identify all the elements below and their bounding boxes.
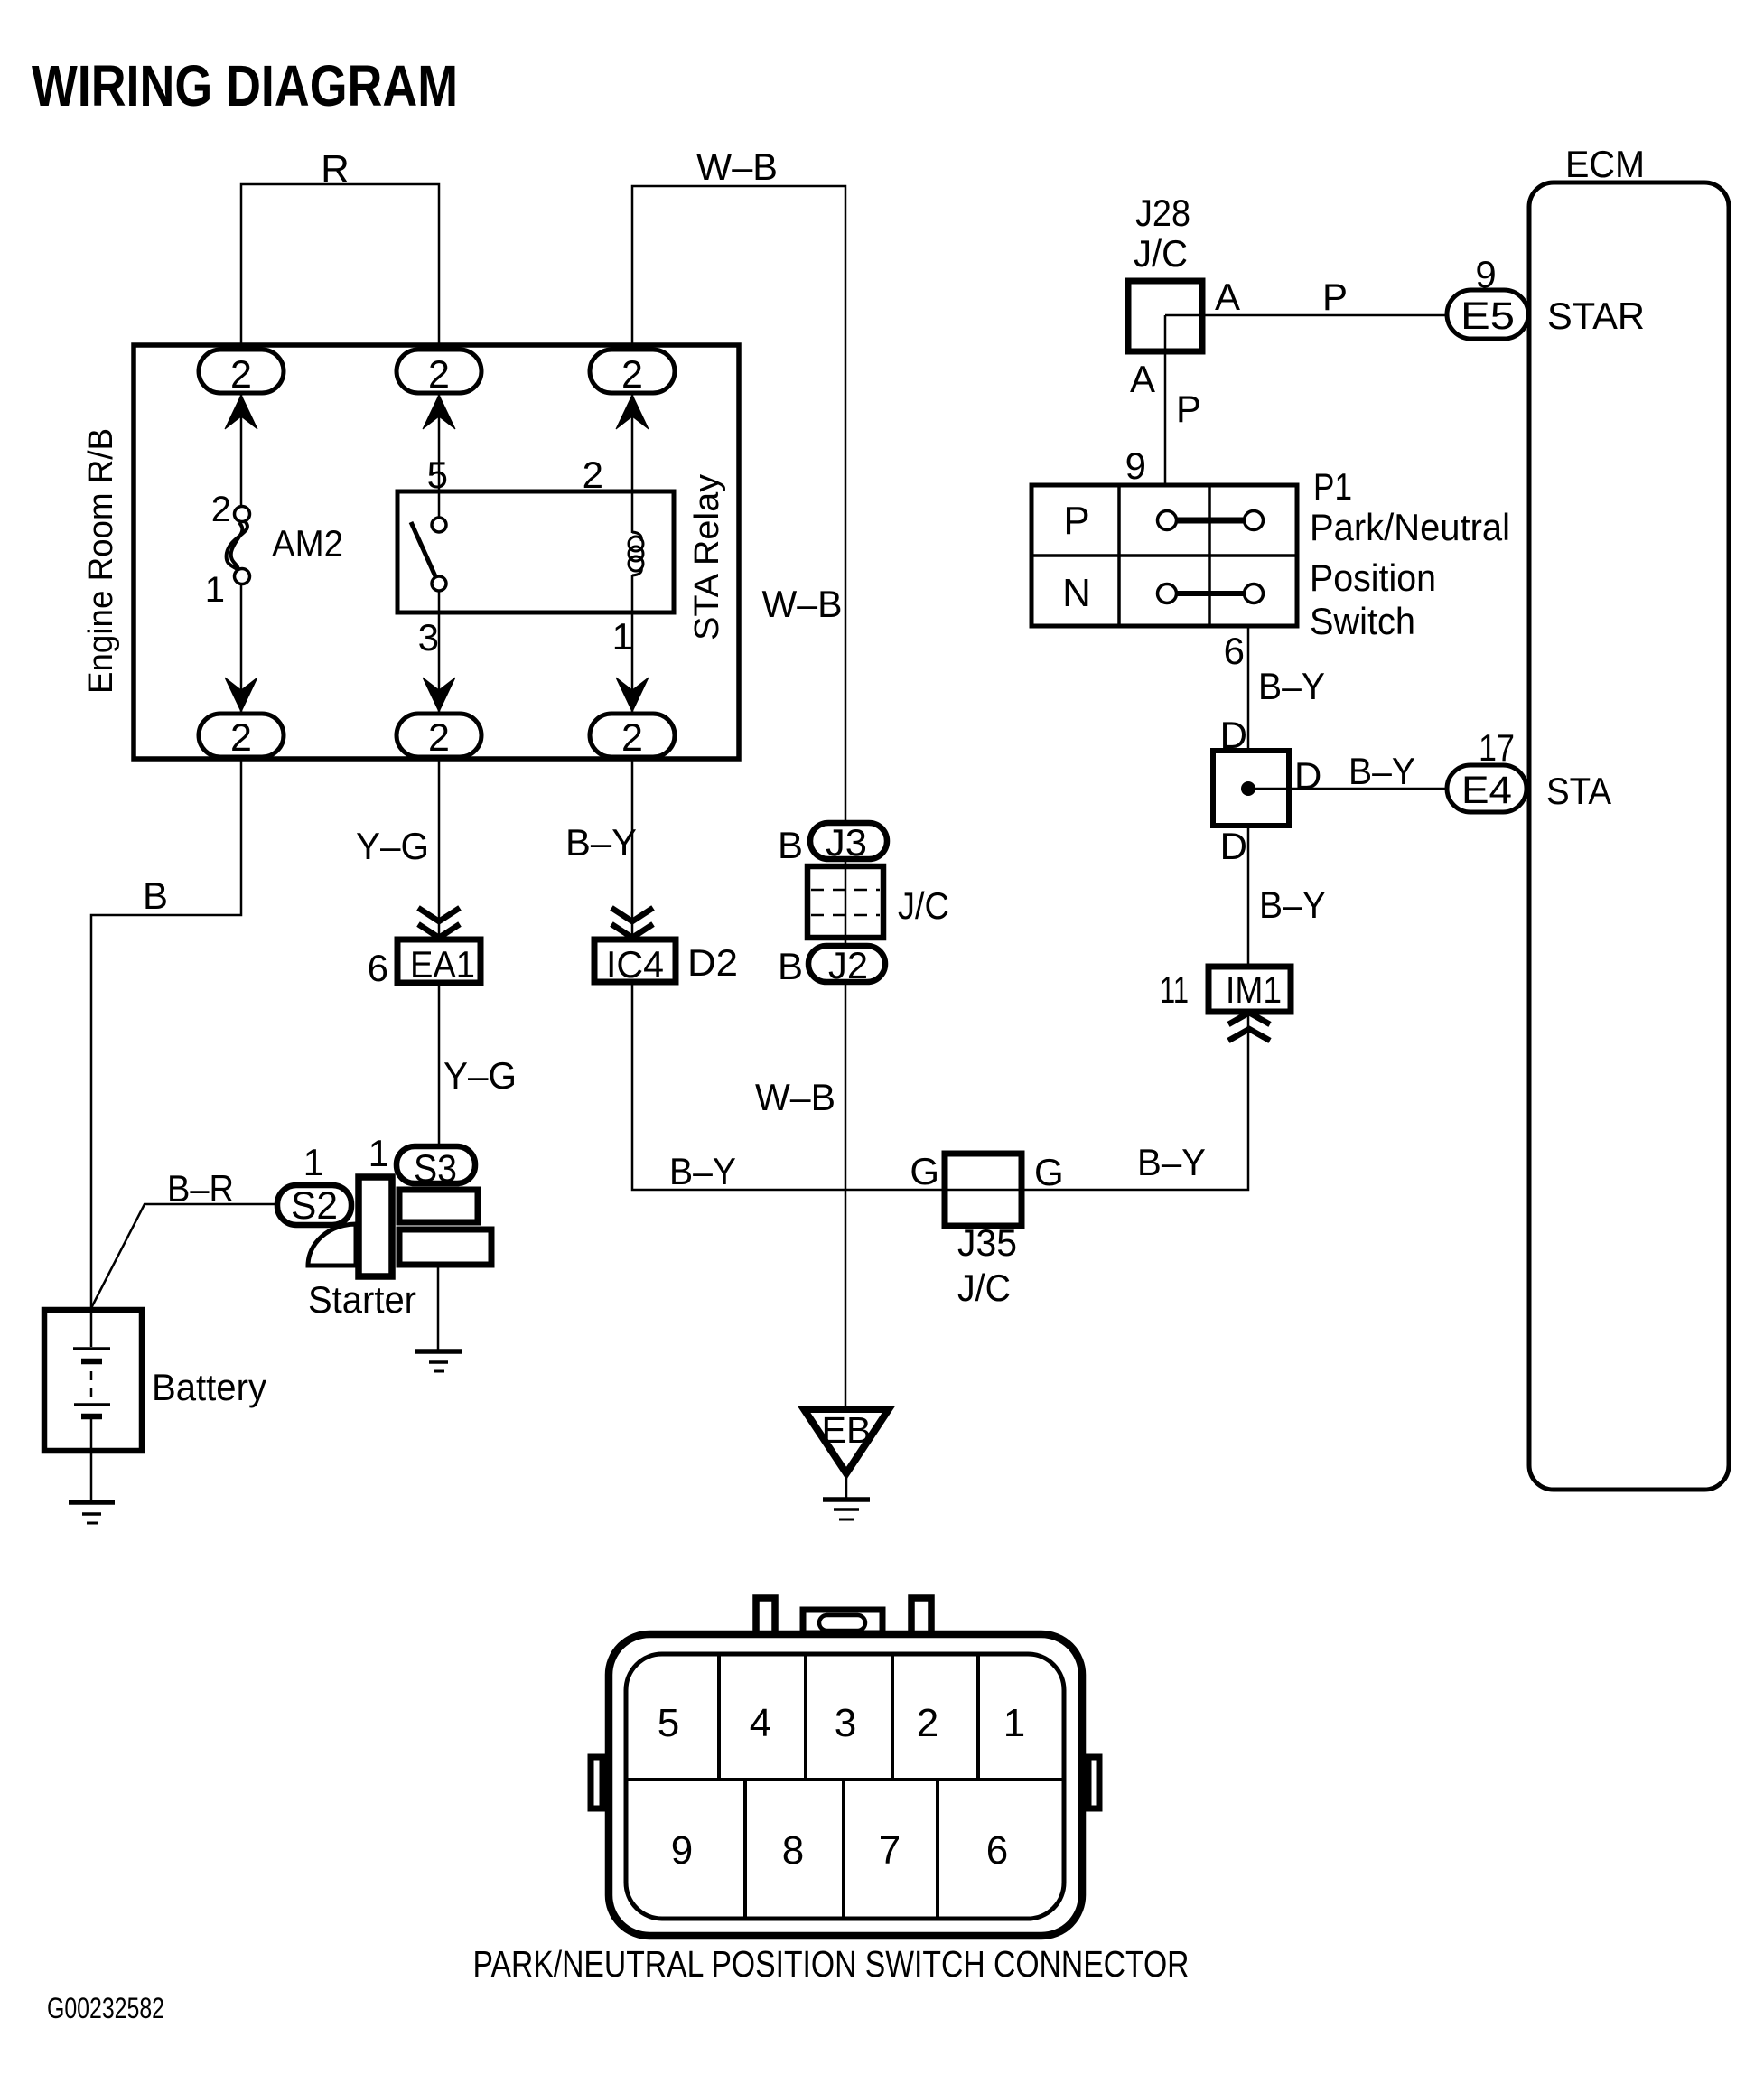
svg-text:Switch: Switch — [1310, 600, 1415, 642]
svg-text:B–Y: B–Y — [1349, 750, 1415, 792]
svg-text:W–B: W–B — [696, 145, 778, 188]
ECM box — [1529, 182, 1729, 1490]
svg-text:J3: J3 — [826, 821, 867, 864]
connector pin 2 oval top x=486 — [397, 350, 481, 397]
ground starter — [415, 1351, 462, 1371]
relay contact circle pin 3 — [432, 576, 446, 591]
arrow up column x=700 — [616, 395, 649, 429]
svg-text:P: P — [1322, 276, 1348, 318]
wire R loop — [241, 184, 439, 352]
relay STA Relay box — [397, 491, 674, 612]
switch P1 box — [1031, 485, 1297, 626]
svg-text:2: 2 — [230, 353, 252, 397]
svg-text:1: 1 — [369, 1132, 389, 1174]
svg-text:2: 2 — [428, 353, 450, 397]
svg-text:9: 9 — [1125, 444, 1146, 487]
svg-text:8: 8 — [782, 1828, 804, 1873]
wire column 3 through relay coil — [631, 393, 634, 714]
connector S2 oval — [277, 1184, 351, 1228]
svg-text:6: 6 — [368, 947, 388, 989]
relay switch arm — [411, 522, 435, 576]
splice arrows above IC4 — [611, 908, 653, 938]
connector inner shell — [626, 1654, 1064, 1919]
connector pin 2 oval bottom x=700 — [590, 714, 675, 760]
P1 contact N row — [1158, 584, 1264, 603]
svg-text:B–Y: B–Y — [1137, 1141, 1206, 1183]
svg-text:E5: E5 — [1461, 294, 1515, 338]
wire B-Y P1 to D to IM1 — [1247, 626, 1250, 964]
wire B-R diagonal to starter S2 — [91, 1204, 275, 1308]
svg-text:9: 9 — [671, 1828, 693, 1873]
svg-text:5: 5 — [427, 453, 448, 496]
fuse AM2 terminal 1 — [235, 569, 250, 584]
svg-text:STA Relay: STA Relay — [688, 474, 726, 640]
connector divider bottom 1 — [743, 1780, 747, 1919]
battery box — [44, 1310, 142, 1451]
svg-text:2: 2 — [621, 716, 643, 760]
connector divider middle — [626, 1778, 1064, 1781]
connector divider top 4 — [976, 1654, 980, 1780]
svg-text:2: 2 — [211, 490, 231, 529]
wire EB to ground — [845, 1473, 848, 1499]
svg-text:7: 7 — [879, 1828, 901, 1873]
svg-text:PARK/NEUTRAL POSITION SWITCH C: PARK/NEUTRAL POSITION SWITCH CONNECTOR — [473, 1943, 1190, 1985]
svg-text:B–R: B–R — [167, 1167, 234, 1210]
wire B-Y column to J35 and IM1 — [632, 757, 1248, 1190]
node D junction box — [1213, 751, 1289, 826]
wire column 2 through relay switch — [438, 393, 441, 714]
connector top tab right — [911, 1598, 931, 1635]
svg-text:D: D — [1294, 754, 1321, 797]
svg-text:J/C: J/C — [898, 884, 949, 927]
svg-text:1: 1 — [303, 1141, 324, 1183]
svg-text:D: D — [1220, 825, 1247, 867]
connector divider bottom 3 — [936, 1780, 939, 1919]
fuse AM2 squiggle — [227, 521, 247, 573]
wire B battery feed — [91, 757, 241, 1308]
connector side tab left — [591, 1757, 602, 1808]
svg-text:B–Y: B–Y — [565, 821, 637, 864]
svg-text:J2: J2 — [828, 944, 868, 986]
connector S3 oval — [397, 1146, 475, 1191]
svg-text:J35: J35 — [957, 1221, 1017, 1264]
svg-text:STA: STA — [1546, 770, 1611, 812]
svg-text:P: P — [1176, 388, 1201, 430]
connector pin 2 oval bottom x=486 — [397, 714, 481, 760]
svg-text:E4: E4 — [1461, 769, 1512, 812]
svg-text:2: 2 — [230, 716, 252, 760]
svg-text:3: 3 — [418, 616, 439, 659]
svg-text:Starter: Starter — [308, 1278, 416, 1321]
ground battery — [69, 1502, 115, 1523]
svg-text:S2: S2 — [291, 1184, 338, 1228]
svg-text:EA1: EA1 — [410, 943, 475, 986]
svg-text:IC4: IC4 — [606, 943, 664, 986]
starter housing quarter circle — [308, 1224, 356, 1266]
battery plate long top — [73, 1347, 110, 1350]
svg-text:W–B: W–B — [755, 1076, 835, 1118]
P1 divider vertical 2 — [1208, 485, 1211, 626]
svg-text:3: 3 — [835, 1701, 856, 1745]
arrow up column x=267 — [225, 395, 257, 429]
connector side tab right — [1088, 1757, 1099, 1808]
svg-text:P: P — [1063, 499, 1089, 543]
connector top center latch — [803, 1610, 882, 1633]
connector divider bottom 2 — [842, 1780, 845, 1919]
connector IM1 — [1209, 967, 1291, 1012]
svg-text:WIRING DIAGRAM: WIRING DIAGRAM — [32, 53, 458, 118]
svg-text:STAR: STAR — [1547, 294, 1645, 337]
connector outer shell — [609, 1634, 1082, 1936]
connector EA1 — [397, 939, 481, 986]
junction connector J35 — [945, 1154, 1022, 1226]
svg-text:B–Y: B–Y — [669, 1150, 736, 1192]
splice arrows below IM1 — [1228, 1013, 1270, 1041]
wire P J28 to E5 — [1165, 314, 1447, 317]
ground EB triangle — [804, 1409, 889, 1473]
svg-text:2: 2 — [428, 716, 450, 760]
svg-text:G00232582: G00232582 — [47, 1992, 164, 2024]
svg-text:EB: EB — [822, 1409, 872, 1451]
arrow down column x=700 — [616, 678, 649, 712]
svg-text:1: 1 — [1003, 1701, 1025, 1745]
svg-text:B: B — [778, 824, 803, 866]
svg-text:AM2: AM2 — [272, 522, 343, 565]
svg-text:G: G — [910, 1150, 939, 1192]
svg-text:D: D — [1220, 714, 1247, 756]
arrow down column x=486 — [423, 678, 455, 712]
arrow down column x=267 — [225, 678, 257, 712]
ground EB — [823, 1500, 870, 1519]
P1 contact P row — [1158, 511, 1264, 530]
wire B-Y D to E4 — [1248, 788, 1447, 790]
starter body rect upper — [399, 1190, 478, 1222]
svg-text:J28: J28 — [1135, 192, 1190, 234]
svg-text:9: 9 — [1475, 253, 1496, 295]
junction block Engine Room R/B — [134, 345, 739, 759]
wire starter to ground — [437, 1266, 440, 1350]
svg-text:ECM: ECM — [1565, 143, 1645, 185]
svg-text:B–Y: B–Y — [1259, 883, 1326, 926]
battery plate short bottom — [81, 1414, 102, 1420]
svg-text:2: 2 — [917, 1701, 938, 1745]
connector divider top 3 — [891, 1654, 894, 1780]
wire P J28 to P1 — [1164, 315, 1167, 485]
svg-text:A: A — [1215, 276, 1240, 318]
P1 divider vertical 1 — [1117, 485, 1121, 626]
ECM pin E5 oval — [1447, 290, 1528, 339]
connector top tab left — [756, 1598, 775, 1635]
svg-text:G: G — [1034, 1151, 1064, 1193]
svg-text:A: A — [1130, 358, 1155, 400]
svg-text:5: 5 — [658, 1701, 679, 1745]
svg-text:J/C: J/C — [1134, 232, 1188, 275]
svg-text:Battery: Battery — [152, 1366, 266, 1408]
connector pin 2 oval top x=267 — [199, 350, 284, 397]
svg-text:2: 2 — [583, 453, 603, 496]
svg-text:Engine Room R/B: Engine Room R/B — [82, 428, 120, 694]
svg-text:2: 2 — [621, 353, 643, 397]
fuse AM2 terminal 2 — [235, 507, 250, 522]
svg-text:6: 6 — [986, 1828, 1008, 1873]
svg-text:Park/Neutral: Park/Neutral — [1310, 506, 1510, 548]
svg-text:S3: S3 — [414, 1147, 457, 1191]
svg-text:IM1: IM1 — [1226, 968, 1282, 1011]
svg-text:N: N — [1062, 571, 1091, 615]
svg-text:Y–G: Y–G — [356, 825, 429, 867]
svg-text:17: 17 — [1479, 726, 1515, 769]
svg-text:D2: D2 — [687, 941, 738, 984]
battery plate long bottom — [74, 1403, 110, 1406]
relay contact circle pin 5 — [432, 518, 446, 532]
junction connector J28 box — [1128, 281, 1202, 351]
svg-text:B–Y: B–Y — [1258, 665, 1325, 707]
svg-text:B: B — [143, 874, 168, 917]
svg-text:Y–G: Y–G — [443, 1054, 517, 1097]
junction connector J3 — [810, 821, 887, 864]
battery lead bottom — [90, 1419, 93, 1451]
wire battery to ground — [90, 1451, 93, 1500]
wire Y-G column — [438, 757, 441, 1144]
node D junction dot — [1241, 781, 1255, 796]
connector IC4 — [594, 939, 676, 986]
starter solenoid bar — [359, 1177, 392, 1276]
svg-text:1: 1 — [205, 570, 225, 610]
svg-text:P1: P1 — [1313, 465, 1352, 508]
svg-text:4: 4 — [750, 1701, 771, 1745]
svg-text:Position: Position — [1310, 556, 1436, 599]
svg-text:6: 6 — [1224, 630, 1245, 672]
svg-text:J/C: J/C — [957, 1266, 1011, 1309]
svg-text:1: 1 — [612, 615, 633, 658]
junction connector J2 — [808, 944, 885, 986]
starter body rect lower — [399, 1229, 491, 1265]
battery lead top — [90, 1310, 93, 1347]
svg-text:R: R — [321, 147, 350, 192]
svg-text:B: B — [778, 945, 803, 987]
svg-text:W–B: W–B — [762, 583, 843, 625]
connector divider top 2 — [804, 1654, 807, 1780]
battery plate short top — [81, 1359, 102, 1365]
connector pin 2 oval top x=700 — [590, 350, 675, 397]
connector divider top 1 — [717, 1654, 721, 1780]
splice arrows above EA1 — [418, 908, 460, 938]
battery dashed link — [90, 1371, 93, 1402]
svg-text:11: 11 — [1160, 968, 1189, 1011]
relay coil — [629, 532, 643, 575]
wire W-B loop down to EB — [632, 186, 845, 1409]
junction block J/C dashed — [807, 866, 883, 938]
ECM pin E4 oval — [1447, 765, 1526, 812]
wire column 1 through AM2 — [240, 393, 243, 714]
connector pin 2 oval bottom x=267 — [199, 714, 284, 760]
arrow up column x=486 — [423, 395, 455, 429]
P1 divider horizontal — [1031, 554, 1297, 557]
